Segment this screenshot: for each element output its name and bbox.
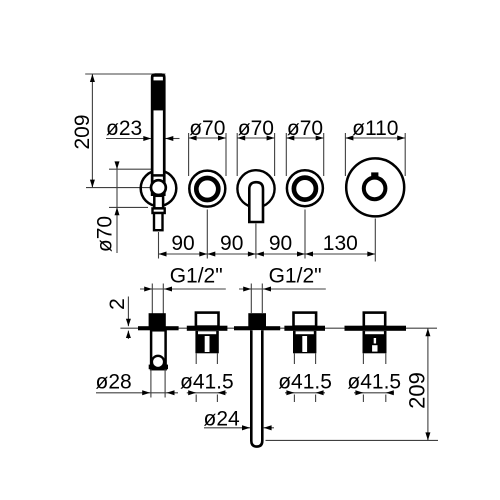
svg-text:130: 130 — [323, 232, 358, 255]
svg-text:90: 90 — [171, 232, 194, 255]
svg-text:ø23: ø23 — [106, 117, 142, 140]
svg-text:G1/2": G1/2" — [269, 264, 322, 287]
valve 4 side view: trim sleeve — [294, 313, 317, 327]
valve trim circle 2 (ø70 with ring) — [189, 171, 225, 207]
thermostat side view: trim sleeve — [364, 313, 385, 327]
extension line at bracket centerline — [86, 187, 150, 189]
centre tick circle 2 — [206, 210, 208, 259]
valve 4 extension lines — [293, 353, 295, 364]
centre tick circle 4 — [304, 210, 306, 259]
handshower holder: hose lines — [150, 369, 152, 397]
valve 2 side view: wall plate — [187, 326, 228, 331]
handshower holder: body — [149, 330, 168, 369]
lever handle circle 3 (ø70) — [237, 170, 274, 222]
thermostat trim circle (ø110) — [346, 158, 404, 216]
handshower holder knob — [151, 180, 166, 195]
thermostat side view: wall plate — [345, 326, 407, 331]
svg-text:ø110: ø110 — [352, 117, 398, 140]
svg-text:ø70: ø70 — [238, 117, 274, 140]
valve 2 extension lines — [195, 353, 197, 364]
svg-text:90: 90 — [220, 232, 243, 255]
thermostat extension lines — [362, 353, 364, 364]
svg-text:ø28: ø28 — [96, 370, 132, 393]
svg-text:ø41.5: ø41.5 — [180, 371, 234, 394]
dimension row 90/90/90/130 — [159, 232, 376, 257]
spout: G1/2 connector block — [248, 313, 266, 326]
dimension ø70 (left, bracket circle, vertical) — [94, 161, 152, 253]
dimension ø70 (valve circle 2) — [189, 117, 226, 176]
handshower lower connector: tip tube — [154, 213, 163, 230]
handshower lower connector: neck — [154, 196, 163, 209]
spout: wall plate — [234, 326, 280, 330]
dimension G1/2 (handshower holder) — [140, 264, 226, 315]
centre tick handshower — [158, 232, 160, 259]
thermostat side view: body — [363, 331, 387, 354]
spout: tube — [251, 330, 262, 446]
dimension G1/2 (spout) — [239, 264, 326, 313]
handshower holder: G1/2 connector block — [149, 313, 166, 326]
dimension ø70 (valve circle 4) — [286, 117, 323, 176]
dimension ø70 (lever circle 3) — [237, 117, 274, 176]
dimension ø24 (spout tube) — [204, 407, 275, 430]
svg-text:209: 209 — [71, 114, 94, 149]
dimension ø28 — [96, 370, 179, 395]
svg-text:ø24: ø24 — [204, 407, 241, 430]
centre tick circle 3 — [255, 224, 257, 259]
dimension ø41.5 (thermostat) — [347, 371, 401, 396]
dimension 2 (wall plate thickness) — [106, 297, 131, 340]
wall line — [120, 327, 437, 329]
svg-text:G1/2": G1/2" — [170, 264, 223, 287]
valve 2 side view: body — [195, 331, 218, 354]
valve 4 side view: body — [293, 331, 316, 354]
handshower lower connector: flange — [153, 208, 165, 213]
valve 2 side view: trim sleeve — [196, 313, 219, 327]
extension line spout bottom — [266, 439, 439, 441]
dimension ø110 (thermostat circle) — [345, 117, 405, 176]
centre tick thermostat — [374, 219, 376, 262]
dimension 209 (left, vertical) — [71, 74, 95, 188]
dimension ø41.5 (valve 4) — [278, 371, 332, 396]
svg-text:209: 209 — [405, 372, 430, 409]
svg-text:2: 2 — [106, 298, 129, 310]
svg-text:ø41.5: ø41.5 — [278, 371, 332, 394]
svg-text:ø70: ø70 — [94, 216, 117, 252]
handshower wall bracket circle ø70 — [141, 171, 177, 207]
valve 4 side view: wall plate — [284, 326, 325, 331]
svg-text:ø41.5: ø41.5 — [347, 371, 401, 394]
svg-text:90: 90 — [269, 232, 292, 255]
svg-text:ø70: ø70 — [287, 117, 323, 140]
extension line from handshower head top — [85, 73, 165, 75]
handshower handle + head (front view) — [151, 73, 166, 196]
dimension ø23 (handshower handle) — [106, 117, 180, 141]
handshower holder: wall plate — [138, 326, 179, 330]
valve trim circle 4 (ø70 with ring) — [287, 170, 323, 206]
dimension ø41.5 (valve 2) — [180, 371, 234, 396]
dimension 209 (right, vertical) — [405, 328, 431, 440]
svg-text:ø70: ø70 — [189, 117, 225, 140]
